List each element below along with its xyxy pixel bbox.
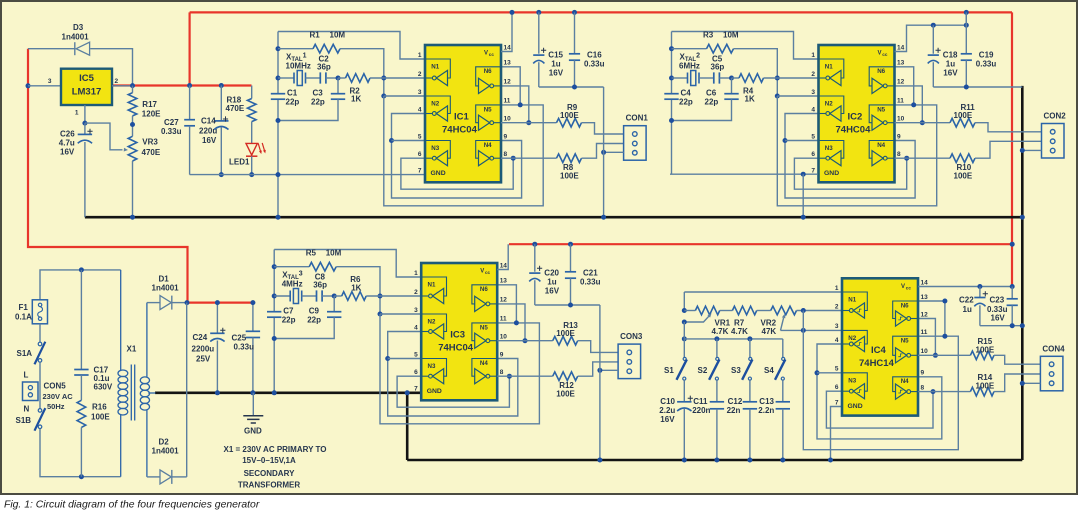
node pin10 junction: [933, 353, 938, 358]
wire AC loop bottom: [40, 429, 121, 477]
node pin13 tap: [942, 299, 947, 304]
wire ground bus bottom: [407, 459, 1022, 462]
svg-text:N6: N6: [480, 286, 488, 293]
transformer X1: [118, 270, 156, 477]
svg-text:13: 13: [500, 278, 508, 285]
wire ground bus drop at IC3: [406, 393, 409, 460]
svg-text:1u: 1u: [551, 60, 560, 69]
LED LED1: [251, 122, 253, 144]
wire pin6 to pin8 bus: [401, 158, 513, 189]
wire rectifier output red: [187, 302, 254, 304]
wire oscillator node vertical: [273, 250, 275, 312]
capacitor C3 22p: [337, 78, 339, 94]
svg-text:R17: R17: [142, 100, 157, 109]
svg-text:12: 12: [504, 79, 512, 86]
svg-text:N2: N2: [825, 101, 833, 108]
svg-text:36p: 36p: [317, 63, 331, 72]
svg-text:CON2: CON2: [1044, 112, 1067, 121]
svg-text:IC4: IC4: [871, 345, 887, 356]
IC body IC4 74HC14: [842, 278, 918, 415]
svg-text:D2: D2: [159, 438, 170, 447]
svg-text:N3: N3: [825, 145, 833, 152]
wire C22 C23 ground: [980, 325, 1022, 327]
capacitor C10 2.2u: [683, 380, 685, 402]
wire pin2 net outer bus: [380, 314, 539, 424]
wire pin14 to rail: [895, 25, 967, 51]
wire connector ground pin: [1022, 149, 1041, 151]
switch S1: [683, 339, 685, 357]
node C branch: [272, 264, 277, 269]
svg-text:2: 2: [115, 78, 119, 85]
wire pin13 link: [918, 301, 945, 336]
capacitor C18 1u 16V: [932, 25, 934, 54]
svg-text:C24: C24: [193, 333, 208, 342]
svg-text:4MHz: 4MHz: [282, 280, 303, 289]
svg-text:7: 7: [414, 385, 418, 392]
capacitor C9 22p: [333, 296, 335, 312]
svg-text:11: 11: [897, 98, 904, 105]
wire pin6 to pin8 bus: [826, 391, 933, 428]
node rail pin14: [510, 10, 515, 15]
svg-text:R5: R5: [306, 249, 317, 258]
node cap return: [276, 118, 281, 123]
svg-text:1K: 1K: [351, 283, 361, 292]
svg-text:100E: 100E: [556, 329, 575, 338]
svg-text:GND: GND: [244, 427, 262, 436]
inverter N3: [421, 359, 446, 377]
svg-text:7: 7: [811, 167, 815, 174]
resistor R10 100E: [895, 157, 951, 159]
node CON2 ground branch: [1020, 148, 1025, 153]
svg-text:100E: 100E: [976, 345, 995, 354]
wire fuse to switch S1A: [39, 324, 41, 342]
node pin8 junction: [507, 374, 512, 379]
wire pin1 top link: [274, 250, 421, 278]
inverter N5: [476, 105, 501, 123]
svg-text:1K: 1K: [745, 95, 755, 104]
resistor R7 4.7K: [720, 310, 733, 312]
inverter N1: [425, 59, 450, 78]
node VR1 left: [682, 308, 687, 313]
svg-text:R1: R1: [310, 31, 321, 40]
svg-text:SECONDARY: SECONDARY: [244, 469, 295, 478]
wire C19 to rail: [965, 12, 967, 25]
svg-text:74HC04: 74HC04: [836, 125, 872, 136]
inverter N3: [819, 141, 844, 159]
wire CON4 ground: [1022, 382, 1040, 384]
wire pin5: [785, 140, 819, 142]
wire red left input rail: [28, 49, 188, 303]
svg-text:10: 10: [500, 334, 508, 341]
wire pin14 row: [918, 286, 1012, 288]
resistor R4 1K: [732, 77, 740, 79]
wire R16 to bottom: [80, 427, 82, 476]
svg-text:10M: 10M: [723, 31, 739, 40]
svg-text:9: 9: [500, 351, 504, 358]
wire IC5 pin 2 output: [112, 85, 133, 87]
resistor R16: [77, 400, 86, 427]
svg-text:36p: 36p: [711, 63, 725, 72]
node pin3: [378, 312, 383, 317]
svg-text:2: 2: [811, 71, 815, 78]
switch S4: [782, 339, 784, 357]
node B branch: [669, 46, 674, 51]
node M3 node vertical ground: [272, 390, 277, 395]
wire decoupling ground: [933, 86, 1022, 88]
svg-text:4.7K: 4.7K: [731, 327, 748, 336]
svg-text:8: 8: [504, 151, 508, 158]
svg-text:1: 1: [811, 52, 815, 59]
svg-text:N6: N6: [484, 68, 492, 75]
capacitor C7 22p: [267, 311, 281, 313]
svg-text:GND: GND: [427, 388, 442, 395]
IC body IC3 74HC04: [421, 263, 497, 400]
svg-text:S1B: S1B: [16, 416, 32, 425]
connector CON1: [624, 126, 647, 161]
node AC top junction: [79, 267, 84, 272]
crystal XTAL3 4MHz: [272, 294, 277, 299]
svg-text:10M: 10M: [326, 249, 342, 258]
node S3 tap: [747, 336, 752, 341]
node pin5 junction: [389, 138, 394, 143]
node module ground: [601, 215, 606, 220]
svg-text:C1: C1: [287, 89, 298, 98]
node pin11 junction: [942, 334, 947, 339]
svg-text:N6: N6: [877, 68, 885, 75]
node pin11 junction: [911, 102, 916, 107]
svg-text:12: 12: [897, 79, 905, 86]
svg-text:N5: N5: [484, 106, 492, 113]
node VR1 wiper junction: [682, 320, 687, 325]
svg-text:GND: GND: [824, 170, 839, 177]
svg-text:IC1: IC1: [454, 112, 470, 123]
svg-text:4: 4: [418, 106, 422, 113]
svg-text:2.2u: 2.2u: [659, 406, 675, 415]
svg-text:S1A: S1A: [17, 349, 33, 358]
inverter N2: [421, 314, 446, 332]
capacitor C23 0.33u 16V: [1011, 287, 1013, 299]
svg-text:100E: 100E: [560, 111, 579, 120]
inverter N2: [842, 330, 867, 344]
svg-text:4.7u: 4.7u: [59, 139, 75, 148]
svg-text:X1 = 230V AC PRIMARY TO: X1 = 230V AC PRIMARY TO: [224, 445, 327, 454]
svg-text:4.7K: 4.7K: [712, 327, 729, 336]
node C23 bottom: [1010, 323, 1015, 328]
svg-text:1u: 1u: [946, 60, 955, 69]
svg-text:N1: N1: [428, 282, 436, 289]
svg-text:C22: C22: [959, 296, 974, 305]
op-amp U IC5 LM317 body: [61, 69, 112, 105]
svg-text:16V: 16V: [943, 69, 958, 78]
svg-text:N1: N1: [825, 64, 833, 71]
svg-text:1: 1: [418, 52, 422, 59]
IC body IC1 74HC04: [425, 45, 501, 182]
inverter N5: [893, 336, 918, 355]
svg-text:16V: 16V: [202, 136, 217, 145]
node rectifier output: [185, 300, 190, 305]
node pin10 junction: [523, 338, 528, 343]
svg-text:74HC04: 74HC04: [438, 343, 474, 354]
svg-text:11: 11: [504, 98, 511, 105]
wire adj to VR3 wiper: [85, 123, 123, 150]
capacitor C17: [74, 369, 88, 371]
svg-text:6: 6: [811, 151, 815, 158]
capacitor C19 0.33u: [965, 12, 967, 53]
capacitor C22 1u: [979, 287, 981, 298]
svg-text:N5: N5: [877, 106, 885, 113]
svg-text:13: 13: [504, 60, 512, 67]
node pin3 junction: [801, 328, 806, 333]
node rail Ca: [532, 242, 537, 247]
potentiometer VR1 4.7K: [684, 310, 695, 312]
wire pin14 to rail: [501, 12, 512, 51]
svg-text:CON1: CON1: [626, 114, 649, 123]
capacitor C15 1u 16V: [538, 12, 540, 53]
svg-text:C10: C10: [660, 397, 675, 406]
svg-text:C19: C19: [979, 51, 994, 60]
inverter N6: [893, 301, 918, 319]
svg-text:N5: N5: [901, 338, 909, 345]
svg-text:cc: cc: [489, 52, 495, 57]
svg-text:LED1: LED1: [229, 158, 250, 167]
svg-text:36p: 36p: [313, 281, 327, 290]
capacitor C27: [189, 86, 191, 120]
capacitor C16 0.33u: [574, 12, 576, 53]
svg-text:120E: 120E: [142, 110, 161, 119]
svg-text:VR3: VR3: [142, 138, 158, 147]
node pin8 junction: [931, 389, 936, 394]
inverter N6: [869, 67, 894, 86]
node IC2 ground branch: [801, 172, 806, 177]
crystal XTAL2 6MHz: [669, 76, 674, 81]
svg-text:C18: C18: [943, 51, 958, 60]
svg-text:100E: 100E: [91, 413, 110, 422]
svg-text:IC5: IC5: [79, 73, 95, 84]
wire pin4 to pin5 pin9 bus: [817, 344, 942, 439]
svg-text:3: 3: [48, 78, 52, 85]
svg-text:C12: C12: [728, 397, 743, 406]
capacitor C11 220n: [716, 380, 718, 402]
svg-text:1n4001: 1n4001: [152, 284, 180, 293]
node switch rail left: [682, 336, 687, 341]
wire pin2 net outer bus: [777, 96, 936, 206]
inverter N4: [476, 141, 501, 159]
svg-text:C21: C21: [583, 269, 598, 278]
capacitor C1 22p: [271, 93, 285, 95]
node rail Cb: [572, 10, 577, 15]
svg-text:630V: 630V: [94, 383, 113, 392]
node pin2: [381, 76, 386, 81]
svg-text:N2: N2: [431, 101, 439, 108]
wire IC2 pin7 row: [670, 173, 817, 175]
wire pin4 to pin5 pin9 bus: [388, 332, 518, 417]
inverter N4: [893, 377, 918, 392]
capacitor C13 2.2n: [782, 380, 784, 402]
svg-text:2200u: 2200u: [192, 345, 215, 354]
wire IC5 pin 1 adj: [84, 105, 86, 123]
node pin5 junction: [815, 370, 820, 375]
svg-text:C26: C26: [60, 130, 75, 139]
svg-text:100E: 100E: [560, 172, 579, 181]
svg-text:0.1A: 0.1A: [15, 313, 32, 322]
capacitor C6 22p: [731, 78, 733, 94]
node VR3 ground: [130, 215, 135, 220]
svg-text:C15: C15: [548, 51, 563, 60]
svg-text:74HC14: 74HC14: [859, 358, 895, 369]
svg-text:N4: N4: [484, 142, 492, 149]
svg-text:R16: R16: [92, 403, 107, 412]
svg-text:1: 1: [414, 270, 418, 277]
switch S1B: [38, 409, 42, 413]
svg-text:8: 8: [921, 384, 925, 391]
svg-text:74HC04: 74HC04: [442, 125, 478, 136]
capacitor C12 22n: [749, 380, 751, 402]
wire connector ground pin: [604, 151, 624, 153]
inverter N6: [476, 67, 501, 86]
diode D3: [28, 48, 75, 50]
wire pin6 to pin8 bus: [397, 376, 509, 407]
svg-text:14: 14: [921, 279, 929, 286]
wire pin5: [817, 372, 842, 374]
svg-text:12: 12: [500, 297, 508, 304]
potentiometer VR2 47K: [757, 310, 771, 312]
svg-text:2: 2: [835, 303, 839, 310]
svg-text:14: 14: [504, 44, 512, 51]
wire C17 to R16: [80, 375, 82, 400]
wire pin1 top link: [672, 32, 819, 60]
resistor R15 100E: [918, 354, 970, 356]
node C24 bottom: [215, 390, 220, 395]
node VR2 right: [801, 308, 806, 313]
svg-text:C9: C9: [309, 307, 320, 316]
wire regulator section ground row: [190, 174, 425, 176]
svg-text:CON3: CON3: [620, 332, 643, 341]
svg-text:N3: N3: [431, 145, 439, 152]
svg-text:10M: 10M: [330, 31, 346, 40]
svg-text:N3: N3: [848, 377, 856, 384]
svg-text:Fig. 1: Circuit diagram of the: Fig. 1: Circuit diagram of the four freq…: [4, 500, 260, 511]
wire input to IC5 pin 3: [28, 85, 61, 87]
node M1 node vertical ground: [276, 215, 281, 220]
svg-text:10MHz: 10MHz: [286, 62, 311, 71]
wire pin2 net outer bus: [384, 96, 543, 206]
capacitor C25: [252, 303, 254, 332]
wire ground bus right side: [1021, 86, 1024, 460]
node Cb bottom: [964, 85, 969, 90]
svg-text:D3: D3: [73, 23, 84, 32]
svg-text:7: 7: [835, 399, 839, 406]
node R17 VR3 junction: [130, 122, 135, 127]
inverter N5: [869, 105, 894, 123]
svg-text:4: 4: [835, 337, 839, 344]
svg-text:C11: C11: [693, 397, 708, 406]
svg-text:CON5: CON5: [44, 382, 67, 391]
wire pin13 link: [501, 67, 520, 105]
svg-text:1n4001: 1n4001: [152, 447, 180, 456]
IC body IC2 74HC04: [819, 45, 895, 182]
wire IC4 pin1 row: [683, 292, 685, 311]
svg-text:N4: N4: [877, 142, 885, 149]
wire switch rail: [683, 322, 685, 339]
svg-text:22p: 22p: [679, 98, 693, 107]
svg-text:100E: 100E: [556, 390, 575, 399]
svg-text:100E: 100E: [954, 172, 973, 181]
node pin2: [378, 294, 383, 299]
svg-text:5: 5: [418, 133, 422, 140]
svg-text:13: 13: [897, 60, 905, 67]
capacitor C21 0.33u: [570, 244, 572, 272]
node C25 top: [250, 300, 255, 305]
node +V at C27: [187, 83, 192, 88]
svg-text:N1: N1: [848, 297, 856, 304]
svg-text:9: 9: [504, 133, 508, 140]
svg-text:1u: 1u: [963, 305, 972, 314]
svg-text:4: 4: [811, 106, 815, 113]
svg-text:100E: 100E: [976, 382, 995, 391]
node pin14 +V: [1010, 284, 1015, 289]
svg-text:C23: C23: [990, 296, 1005, 305]
svg-text:C6: C6: [706, 89, 717, 98]
svg-text:cc: cc: [485, 270, 491, 275]
node rail Ca: [536, 10, 541, 15]
svg-text:N4: N4: [480, 360, 488, 367]
wire +V top red rail: [190, 11, 1012, 13]
wire pin12 link: [895, 86, 923, 123]
svg-text:C27: C27: [164, 118, 179, 127]
svg-text:22p: 22p: [286, 98, 300, 107]
inverter N2: [425, 96, 450, 114]
wire pin7 ground: [831, 407, 843, 461]
svg-text:LM317: LM317: [72, 87, 102, 98]
svg-text:6MHz: 6MHz: [679, 62, 700, 71]
wire S1A to CON5: [39, 362, 41, 408]
diode D1: [147, 302, 160, 304]
node C13 ground: [780, 458, 785, 463]
wire VR2 wiper: [781, 318, 784, 331]
capacitor C2 36p: [320, 72, 326, 83]
svg-text:3: 3: [414, 307, 418, 314]
resistor R18: [251, 86, 253, 99]
capacitor C20 1u 16V: [534, 244, 536, 272]
svg-text:2: 2: [418, 71, 422, 78]
node rail Cb: [568, 242, 573, 247]
svg-text:C14: C14: [201, 117, 216, 126]
svg-text:R3: R3: [703, 31, 714, 40]
svg-text:2.2n: 2.2n: [758, 406, 774, 415]
svg-text:1: 1: [835, 285, 839, 292]
node pin5 junction: [385, 356, 390, 361]
connector CON4: [1040, 356, 1063, 391]
svg-text:47K: 47K: [762, 327, 777, 336]
svg-text:C25: C25: [232, 334, 247, 343]
wire pin3 row VR2: [781, 329, 843, 331]
svg-text:D1: D1: [159, 275, 170, 284]
wire pin5: [388, 358, 422, 360]
node IC2 ground: [801, 215, 806, 220]
node pin2: [775, 76, 780, 81]
node C22 tap: [977, 284, 982, 289]
ground symbol: [252, 393, 254, 416]
svg-text:230V AC: 230V AC: [43, 392, 74, 401]
node LED1 bottom: [249, 172, 254, 177]
capacitor C24: [216, 303, 218, 334]
node C22 ground at bus: [1020, 323, 1025, 328]
svg-text:16V: 16V: [991, 314, 1006, 323]
wire decoupling ground: [539, 86, 604, 88]
wire ground centre-tap line: [155, 391, 422, 394]
node series cap: [729, 76, 734, 81]
wire module ground drop: [603, 87, 605, 217]
